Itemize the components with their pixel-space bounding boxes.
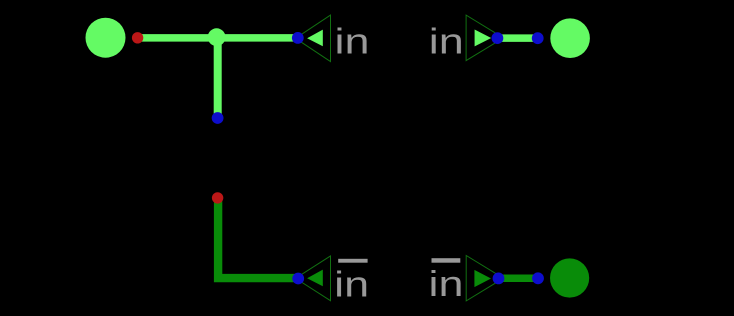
wire: short low net from tunnel IN4 to probe OUT3 [499, 275, 539, 283]
tunnel IN1 body (left-pointing outline) [296, 15, 331, 62]
wire: vertical high net stub from junction [214, 38, 222, 118]
wire: horizontal high net from OUT1 to tunnel IN1 [138, 34, 298, 42]
tunnel IN2 state arrow (high) [475, 30, 492, 47]
output probe OUT1 (high) [86, 18, 126, 58]
node: driven source of low net (red) [212, 192, 223, 203]
output probe OUT2 (high) [550, 18, 590, 58]
wire: short high net from tunnel IN2 to probe OUT2 [497, 34, 537, 42]
tunnel IN4 body (right-pointing outline) [466, 256, 503, 301]
node: output pin of OUT1 (driven, red) [132, 32, 143, 43]
tunnel IN1 state arrow (high) [307, 30, 323, 47]
node: pin of tunnel IN2 (blue) [492, 32, 504, 44]
junction on high net [208, 28, 226, 46]
tunnel IN2 body (right-pointing outline) [466, 15, 503, 61]
node: pin of tunnel IN3 (blue) [292, 273, 304, 285]
svg-text:in: in [335, 21, 370, 62]
node: pin of tunnel IN1 (blue) [292, 32, 304, 44]
node: pin of probe OUT2 (blue) [532, 32, 544, 44]
node: pin of probe OUT3 (blue) [532, 272, 544, 284]
output probe OUT3 (low) [550, 258, 589, 297]
overline of label of tunnel IN4 [432, 258, 461, 263]
overline of label of tunnel IN3 [338, 259, 367, 263]
svg-text:in: in [429, 21, 464, 62]
wire: L-shaped low net to tunnel IN3 [218, 198, 298, 278]
svg-text:in: in [429, 263, 464, 304]
node: pin of tunnel IN4 (blue) [493, 273, 505, 285]
tunnel IN3 body (left-pointing outline) [296, 256, 331, 301]
tunnel IN3 state arrow (low) [307, 270, 323, 287]
svg-text:in: in [334, 263, 369, 304]
node: open end of stub (blue) [212, 112, 224, 124]
tunnel IN4 state arrow (low) [474, 270, 491, 287]
